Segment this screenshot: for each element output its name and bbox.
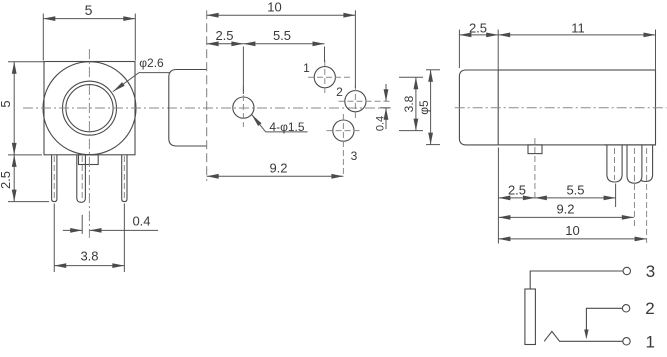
side view tab [528,145,542,154]
dimension 2.5 [242,47,244,95]
dimension 2.5 left pin length [8,201,49,203]
side view body [498,70,655,145]
svg-text:2.5: 2.5 [469,20,487,35]
pin C centerline [646,148,648,243]
dimension 10 bottom [498,238,646,240]
dimension 5.5 bottom [615,184,617,208]
side view pin B [627,145,642,183]
top view barrel outline [169,70,207,147]
pin B centerline [633,148,635,226]
svg-text:2: 2 [645,299,654,318]
svg-text:3.8: 3.8 [402,95,416,112]
side view body bottom edge over pins [604,144,656,146]
hole 2 centerlines [339,100,391,102]
schematic wire 1 with tip spring [544,331,623,341]
hole sleeve [233,97,254,118]
schematic wire 2 [586,308,622,328]
side view centerline [455,107,667,109]
svg-text:1: 1 [645,333,654,352]
dimension 2.5 bottom [497,148,499,244]
left pin centerline [53,156,55,199]
dimension phi 5 [426,69,440,71]
side view barrel [459,70,498,145]
svg-text:2: 2 [336,85,343,99]
front view left pin [52,155,57,202]
schematic terminal 3 [623,267,630,274]
dimension 9.2 [207,175,344,177]
svg-text:5.5: 5.5 [566,183,584,198]
dimension 5.5 [324,47,326,63]
dimension 10 top [354,10,356,88]
svg-text:5.5: 5.5 [273,28,291,43]
hole sleeve vertical centerline [242,86,244,127]
pin A centerline [614,148,616,180]
right pin centerline [123,156,125,199]
svg-text:9.2: 9.2 [269,161,287,176]
dimension 0.4 hole offset [380,107,391,109]
top view body edge dashed [206,10,208,181]
front view hole circle [66,85,113,132]
front view middle pin [77,155,86,203]
schematic terminal 1 [623,338,630,345]
hole 3 centerlines [327,130,361,132]
svg-text:11: 11 [571,20,585,35]
front view right pin [122,155,127,202]
svg-text:10: 10 [267,0,281,15]
svg-text:2.5: 2.5 [0,171,13,189]
svg-text:2.5: 2.5 [508,183,526,198]
front view vertical centerline [88,49,90,238]
dimension 5 left height [8,61,45,63]
front view body square [44,62,135,155]
middle pin centerline [81,156,83,200]
dimension 0.4 pin offset [81,215,83,234]
front view barrel circle [43,62,136,155]
front view horizontal centerline [23,107,391,109]
leader 4-phi1.5 [252,115,308,132]
svg-text:5: 5 [85,2,93,18]
dimension 9.2 bottom [498,216,633,218]
svg-text:5: 5 [0,100,13,107]
front view ring outer [63,81,117,135]
hole 2 [345,91,366,112]
svg-text:φ2.6: φ2.6 [139,56,164,70]
schematic terminal 2 [622,305,629,312]
hole 3 [333,120,354,141]
hole 1 [314,67,335,88]
svg-text:3.8: 3.8 [80,249,98,264]
schematic arrow 2 [584,330,588,340]
front view tab [79,155,99,165]
dimension 5 top width [42,14,44,61]
svg-text:φ5: φ5 [417,100,431,115]
svg-text:3: 3 [351,149,358,163]
svg-text:0.4: 0.4 [132,214,150,229]
svg-text:4-φ1.5: 4-φ1.5 [269,120,304,134]
dimension 3.8 pin spacing [53,204,55,273]
dimension 3.8 hole spacing [399,76,423,78]
leader phi 2.6 [113,73,170,92]
svg-text:9.2: 9.2 [556,202,574,217]
hole 1 centerlines [308,76,353,78]
side view pin C [639,145,653,182]
svg-text:10: 10 [565,223,579,238]
schematic wire 3 [530,271,623,289]
dimension 2.5 barrel top [458,30,460,69]
svg-text:1: 1 [303,61,310,75]
side view tab centerline [534,138,536,200]
schematic sleeve bar [525,289,536,345]
dimension 11 body length [655,30,657,71]
side view pin A [607,145,622,182]
svg-text:2.5: 2.5 [215,28,233,43]
svg-text:0.4: 0.4 [374,116,386,131]
svg-text:3: 3 [646,262,655,281]
